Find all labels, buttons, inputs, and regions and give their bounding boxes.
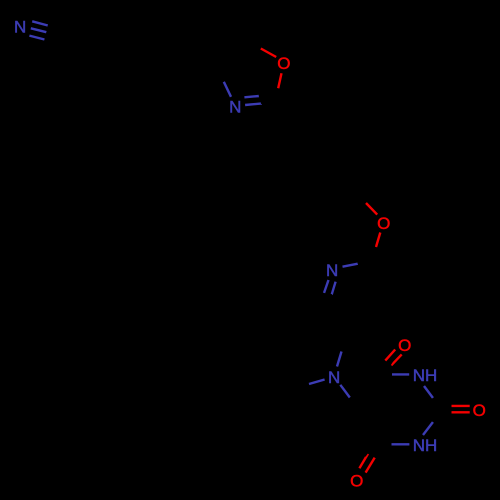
nitrile triple bond N1#C2 line 2 (blue half)	[31, 28, 47, 32]
barbiturate C6'=O ketone red half (inner line)	[385, 350, 395, 361]
svg-text:O: O	[398, 336, 411, 355]
oxazole C5-O bond red half	[261, 49, 276, 58]
svg-text:NH: NH	[413, 366, 438, 385]
svg-text:O: O	[473, 401, 486, 420]
bond pyridine C5 to amine N blue half	[337, 352, 342, 367]
barbiturate N1'-C2' bond blue half	[424, 386, 433, 398]
barbiturate C6'-N1' bond blue half	[392, 373, 409, 375]
barbiturate N3'-C4' bond black half	[383, 443, 386, 446]
oxazole N3-C4 bond black half	[215, 71, 221, 81]
ether O to pyridine C2 bond black half	[370, 245, 374, 259]
N-methyl bond black half	[299, 382, 307, 384]
amine N to C5' bond black half	[352, 399, 364, 410]
barbiturate ring C5'-C6' bond	[364, 377, 383, 410]
pyridine ring wire C2-C3-C4-C5-C6	[320, 259, 391, 336]
barbiturate C4'=O black stubs	[379, 446, 383, 453]
ether O to pyridine C2 bond red half	[376, 233, 380, 248]
benzene C4'-O ether bond black half	[358, 190, 366, 202]
pyridine N1=C6 double bond black halves	[320, 293, 324, 304]
benzene ring wire	[296, 114, 364, 198]
svg-text:N: N	[14, 18, 26, 37]
pyridine N1-C2 bond blue half	[343, 264, 358, 267]
barbiturate C2'-N3' bond blue half	[423, 422, 433, 435]
oxazole O-C2 bond black half	[276, 89, 278, 95]
amine N to C5' bond blue half	[340, 385, 350, 398]
N-methyl bond blue half	[309, 380, 325, 385]
svg-text:NH: NH	[413, 436, 438, 455]
alkyl chain C2-C3 wire	[54, 34, 214, 70]
barbiturate N1'-C2' bond black half	[433, 398, 440, 410]
barbiturate C6'=O black stubs	[387, 361, 392, 369]
ether O bond red half (upper)	[366, 203, 377, 215]
svg-text:O: O	[377, 214, 390, 233]
svg-text:N: N	[229, 98, 241, 117]
nitrile triple bond black halves	[48, 26, 56, 28]
oxazole ring C4=C5 double bond	[214, 41, 247, 70]
barbiturate C2'-N3' bond black half	[433, 411, 440, 423]
svg-text:N: N	[326, 261, 338, 280]
bond pyridine C5 to amine N black half	[342, 336, 346, 350]
oxazole C2=N3 double bond black halves	[259, 94, 272, 95]
pyridine N1-C2 bond black half	[358, 259, 370, 264]
pyridine N1=C6 double bond blue half (main line)	[324, 280, 329, 293]
oxazole N3-C4 bond blue half	[224, 82, 231, 97]
svg-text:O: O	[350, 471, 363, 490]
oxazole O-C2 bond red half	[278, 73, 281, 88]
barbiturate C6'=O ketone red half (main line)	[391, 354, 401, 365]
nitrile triple bond N1#C2 line 1 (blue half)	[32, 21, 48, 25]
barbiturate C2'=O ketone red half (upper line)	[452, 405, 470, 407]
barbiturate C4'=O ketone red half (inner line)	[359, 454, 368, 468]
oxazole C5-O bond black half	[247, 41, 261, 48]
barbiturate C4'=O ketone red half (main line)	[366, 458, 375, 473]
barbiturate C2'=O ketone red half (lower line)	[452, 411, 470, 413]
oxazole C2=N3 double bond blue half (inner line)	[244, 96, 259, 97]
barbiturate C6'-N1' bond black half	[383, 375, 392, 377]
barbiturate C4'-C5' bond	[364, 410, 383, 443]
barbiturate N3'-C4' bond blue half	[392, 443, 410, 445]
svg-text:N: N	[328, 368, 340, 387]
svg-text:O: O	[277, 54, 290, 73]
barbiturate C2'=O black stubs	[440, 406, 451, 408]
nitrile triple bond N1#C2 line 3 (blue half)	[29, 36, 44, 40]
bond oxazole C2 to benzene C1'	[276, 97, 302, 122]
pyridine C3=C4 inner double bond line	[373, 291, 383, 317]
benzene inner double bond lines	[307, 121, 336, 128]
pyridine N1=C6 double bond blue half (inner line)	[332, 282, 336, 295]
oxazole C2=N3 double bond blue half (main line)	[245, 103, 262, 105]
